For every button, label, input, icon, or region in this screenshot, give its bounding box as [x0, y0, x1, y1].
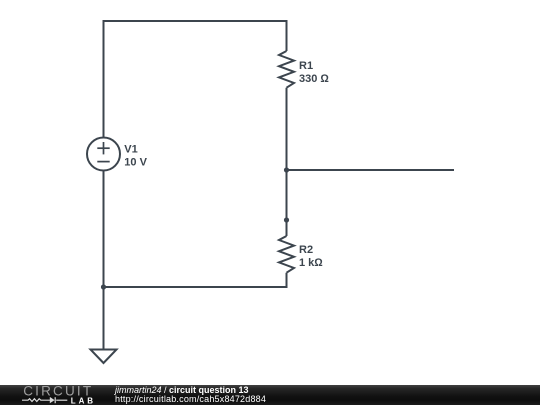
- svg-text:1 kΩ: 1 kΩ: [299, 257, 323, 269]
- svg-text:R2: R2: [299, 244, 313, 256]
- svg-text:10 V: 10 V: [124, 157, 147, 169]
- svg-text:LAB: LAB: [71, 396, 96, 405]
- svg-text:V1: V1: [124, 144, 137, 156]
- svg-text:330 Ω: 330 Ω: [299, 73, 329, 85]
- svg-text:R1: R1: [299, 60, 313, 72]
